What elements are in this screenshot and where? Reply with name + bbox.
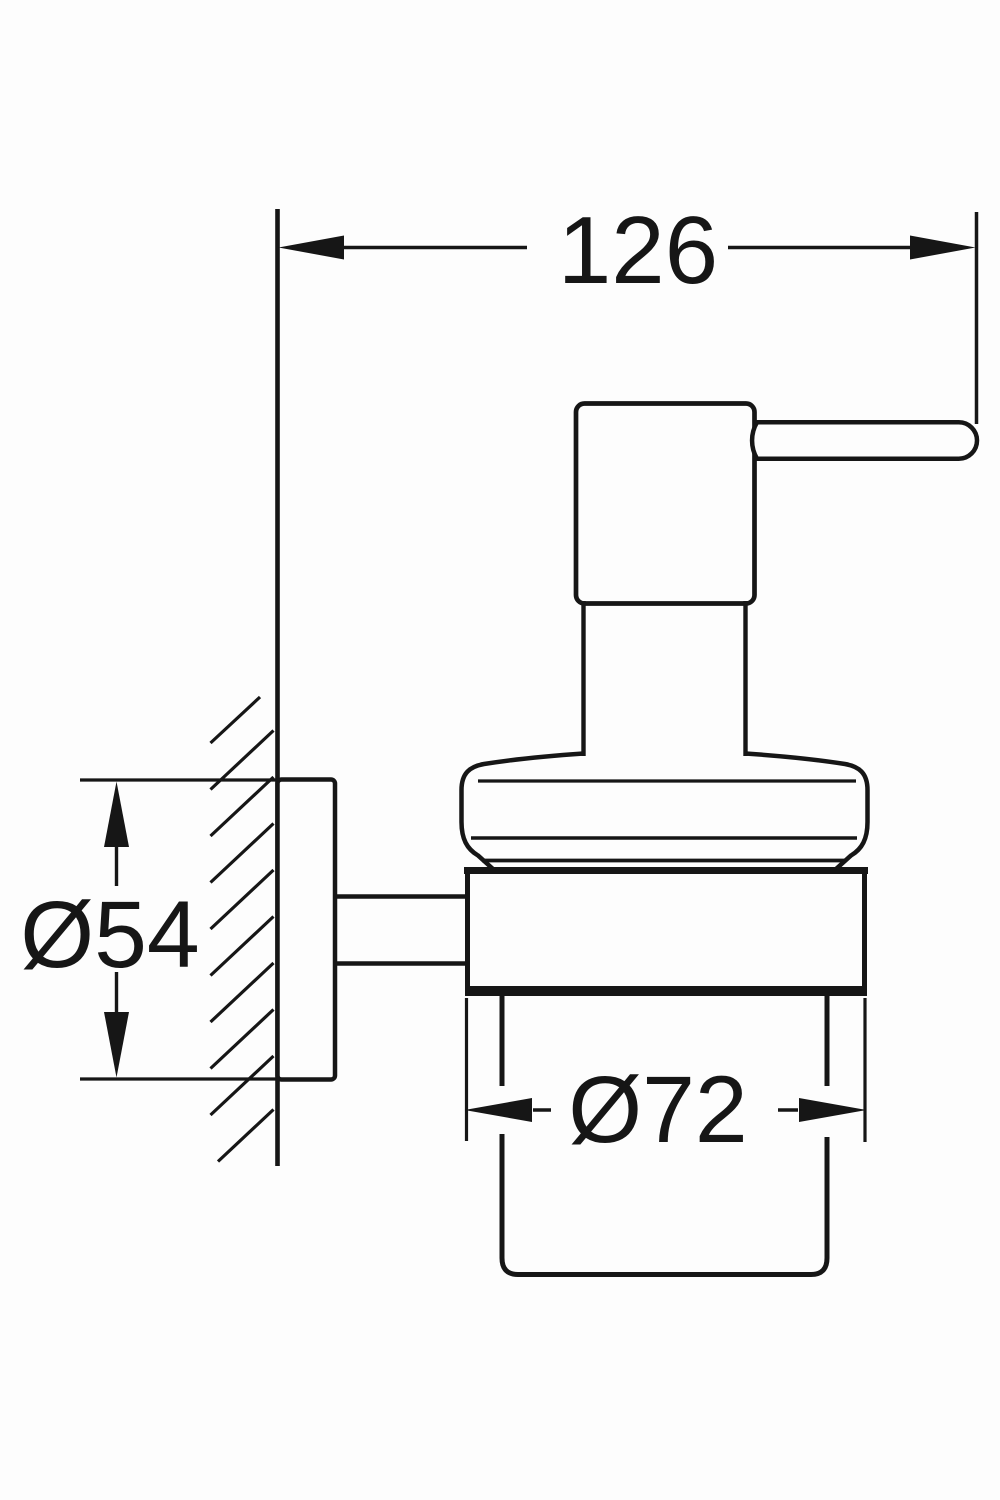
extension line left (dim 72) [465, 998, 468, 1141]
glass upper right wall [825, 996, 830, 1086]
pump head U [576, 404, 755, 604]
dim line 72 left segment [533, 1108, 551, 1111]
glass lower body [502, 1134, 827, 1275]
pump neck left line [581, 601, 585, 756]
holder ring [468, 871, 865, 989]
extension line right (dim 72) [863, 998, 866, 1142]
mounting arm bottom line [334, 961, 468, 965]
mounting arm top line [334, 894, 468, 898]
collar inner line upper [478, 779, 856, 782]
extension line top (dim 54) [80, 778, 278, 781]
collar outline right half [746, 754, 868, 870]
wall plate [278, 780, 336, 1080]
svg-text:Ø54: Ø54 [20, 882, 200, 988]
arrow left (dim 72) [465, 1098, 533, 1122]
right extension line (dim 126) [975, 212, 979, 424]
arrow down (dim 54) [104, 1012, 129, 1078]
arrow right (dim 126) [910, 236, 976, 260]
collar outline left half [462, 754, 584, 870]
collar inner line lower [471, 836, 857, 840]
collar bottom edge [482, 859, 846, 863]
svg-text:Ø72: Ø72 [568, 1057, 748, 1163]
arrow up (dim 54) [104, 782, 129, 848]
dim line 72 right segment [778, 1108, 798, 1111]
dim line 54 lower segment [115, 972, 118, 1013]
extension line bottom (dim 54) [80, 1077, 278, 1080]
holder ring bottom thick edge [465, 986, 867, 996]
dim line 54 upper segment [115, 846, 118, 886]
dimension line 126 left segment [344, 246, 527, 249]
pump neck right line [743, 601, 747, 756]
glass upper left wall [500, 996, 505, 1086]
wall hatching [211, 697, 274, 1162]
arrow left (dim 126) [279, 236, 345, 260]
svg-text:126: 126 [558, 197, 718, 304]
pump lever arm [752, 422, 977, 458]
wall line / left extension line [275, 209, 280, 1166]
dimension line 126 right segment [728, 246, 910, 249]
arrow right (dim 72) [799, 1098, 867, 1122]
holder ring top thick edge [464, 867, 868, 874]
